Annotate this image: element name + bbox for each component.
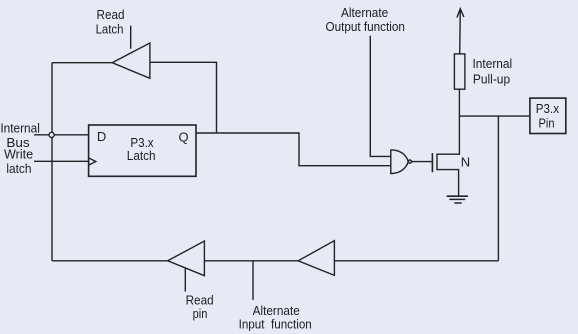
svg-text:Write: Write [4, 147, 33, 162]
wire: read pin label tick [184, 268, 186, 291]
svg-text:P3.x: P3.x [536, 101, 560, 116]
buffer B1 read latch triangle [112, 43, 150, 78]
wire: input rail right segment [334, 260, 498, 262]
ground GND symbol [447, 196, 468, 203]
label: Read pin [186, 293, 214, 321]
label: P3.x Pin [536, 101, 560, 130]
wire: internal bus riser to read latch buffer input [52, 62, 112, 64]
label: Alternate Input function [239, 303, 312, 331]
svg-text:Output function: Output function [326, 19, 405, 34]
wire: NAND output to transistor gate [412, 161, 432, 163]
gate U2 NAND inversion bubble [408, 160, 411, 163]
wire: input rail left segment to internal bus riser [52, 260, 168, 262]
resistor R1 internal pull-up [454, 54, 465, 89]
svg-text:Latch: Latch [127, 148, 156, 163]
wire: Q output to NAND lower input [196, 133, 391, 166]
svg-text:Latch: Latch [96, 22, 124, 37]
wire: internal bus to latch D input [34, 134, 89, 136]
svg-text:latch: latch [6, 161, 31, 176]
svg-text:N: N [461, 155, 470, 170]
wire: pin riser down to input rail [497, 116, 499, 261]
wire: pin node horizontal to P3.x pin box [459, 115, 530, 117]
svg-text:Read: Read [97, 7, 125, 22]
label: Read Latch [96, 7, 125, 36]
wire: read latch label stub to buffer [130, 26, 132, 49]
gate U2 NAND body [391, 150, 408, 174]
label: Internal Bus [0, 121, 40, 150]
buffer B3 alternate input function triangle [298, 241, 334, 276]
label: Write latch [4, 147, 33, 176]
transistor Q1 gate bar [431, 153, 433, 172]
wire: alternate output function to NAND upper input [370, 36, 391, 157]
wire: read latch buffer output to Q node riser [151, 62, 217, 132]
latch U1 P3.x latch box [89, 125, 196, 176]
svg-text:Internal: Internal [0, 121, 40, 136]
label: Internal Pull-up [473, 56, 513, 86]
wire: internal bus left riser [51, 63, 53, 261]
svg-text:Internal: Internal [473, 56, 513, 71]
wire: alternate input label tick [252, 261, 254, 300]
svg-text:D: D [97, 129, 106, 144]
wire: input rail middle segment between buffers [204, 260, 298, 262]
label: Alternate Output function [326, 5, 405, 34]
label: P3.x Latch (inside latch) [127, 135, 156, 163]
svg-text:Q: Q [179, 129, 189, 144]
svg-text:pin: pin [193, 306, 208, 321]
clock input symbol on latch [89, 158, 96, 165]
buffer B2 read pin triangle [168, 241, 205, 276]
svg-text:Input function: Input function [239, 316, 312, 331]
svg-text:Pull-up: Pull-up [473, 72, 510, 87]
wire: pull-up to VCC arrow [459, 9, 462, 54]
svg-text:Pin: Pin [538, 115, 554, 130]
box: P3.x Pin [530, 98, 566, 133]
wire: write latch to clock input [34, 160, 89, 162]
node: internal bus junction circle [49, 132, 54, 137]
VCC arrowhead [457, 9, 464, 18]
transistor Q1 channel drain-source path [437, 89, 459, 196]
